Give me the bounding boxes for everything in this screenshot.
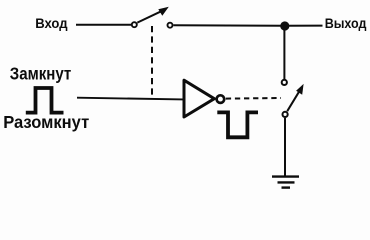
ground <box>272 177 299 188</box>
inverter U1 output bubble <box>217 95 225 103</box>
pulse waveform symbol (positive pulse) <box>26 88 64 113</box>
label Разомкнут <box>3 112 89 132</box>
wire input to switch S1 <box>76 24 131 26</box>
switch S2 upper contact <box>282 80 287 85</box>
wire switch S2 to ground <box>284 118 286 176</box>
inverted pulse waveform symbol (negative pulse) <box>217 112 258 137</box>
svg-text:Разомкнут: Разомкнут <box>3 112 89 132</box>
svg-text:Выход: Выход <box>325 16 367 31</box>
svg-text:Замкнут: Замкнут <box>10 63 72 83</box>
node A junction dot <box>280 21 289 30</box>
svg-text:Вход: Вход <box>35 16 68 31</box>
label Замкнут <box>10 63 72 83</box>
wire pulse input to inverter U1 <box>77 98 183 100</box>
switch S2 lever with arrowhead <box>287 84 303 111</box>
inverter U1 triangle <box>184 80 214 117</box>
switch S2 lower contact <box>283 112 288 117</box>
label Вход <box>35 16 68 31</box>
label Выход <box>325 16 367 31</box>
wire node A down to switch S2 <box>283 26 285 80</box>
switch S1 lever with arrowhead <box>137 7 169 23</box>
dashed control line from switch S1 down <box>151 26 153 98</box>
wire node A to output <box>284 25 323 27</box>
dashed line inverter output to switch S2 <box>226 97 281 100</box>
wire switch S1 to node A <box>174 24 285 27</box>
switch S1 left contact <box>132 22 137 27</box>
switch S1 right contact <box>168 23 173 28</box>
